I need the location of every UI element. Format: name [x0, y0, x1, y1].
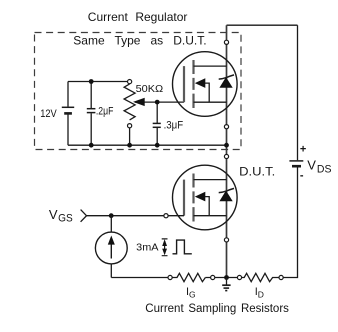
node Q2 gate terminal: [164, 214, 168, 218]
potentiometer wiper arrow: [133, 98, 145, 106]
wire inner bottom rail: [68, 144, 227, 146]
svg-text:Current Sampling Resistors: Current Sampling Resistors: [145, 303, 289, 315]
transistor Q1 diode cathode squiggle: [219, 75, 234, 79]
amplitude dimension arrow: [162, 239, 168, 256]
node junction C1 top rail: [89, 79, 94, 84]
svg-text:.3μF: .3μF: [164, 120, 184, 132]
wire wiper to gate: [135, 101, 184, 103]
wire main vertical drain/source line: [226, 25, 228, 277]
current source I1: [95, 232, 127, 264]
transistor Q1 body arrow: [195, 78, 206, 88]
svg-text:GS: GS: [58, 212, 73, 224]
wire right vertical to VDS battery: [283, 25, 297, 277]
current source leads: [110, 216, 112, 278]
node Q2 drain terminal: [224, 154, 228, 158]
node Q2 source terminal: [224, 238, 228, 242]
svg-text:-: -: [300, 169, 304, 181]
node pot top terminal: [128, 80, 132, 84]
current source I1 arrowhead: [108, 236, 115, 245]
resistor RG terminal right: [211, 275, 215, 279]
wire VGS to gate: [87, 215, 185, 217]
transistor Q1 drain lead: [194, 65, 227, 67]
transistor Q2 (D.U.T.) body connection: [205, 197, 209, 216]
resistor RD zigzag: [242, 273, 279, 281]
node junction wiper/C2: [155, 100, 160, 105]
transistor Q1 gate bar: [183, 66, 185, 102]
node junction rail/main: [224, 143, 229, 148]
node ground junction: [224, 275, 229, 280]
svg-text:50KΩ: 50KΩ: [136, 83, 164, 95]
capacitor C2 plates .3uF: [153, 123, 161, 127]
node junction C1 bottom rail: [89, 143, 94, 148]
resistor RG terminal left: [168, 275, 172, 279]
input chevron VGS: [81, 210, 87, 222]
svg-text:Current Regulator: Current Regulator: [88, 10, 188, 24]
resistor RD terminal left: [237, 275, 241, 279]
svg-text:12V: 12V: [40, 108, 57, 120]
capacitor C1 plates .2uF: [87, 109, 96, 113]
transistor Q2 (D.U.T.) channel segments: [192, 174, 194, 222]
svg-text:D.U.T.: D.U.T.: [239, 164, 275, 178]
node junction pot bottom rail: [127, 143, 132, 148]
battery 12V leads: [67, 82, 69, 146]
resistor RG zigzag: [172, 273, 205, 281]
amplitude arrow head up: [162, 239, 167, 246]
wire inner top rail: [68, 81, 128, 83]
node pot bottom terminal: [128, 124, 132, 128]
potentiometer R1 zigzag: [124, 84, 135, 120]
transistor Q2 (D.U.T.) drain lead: [194, 179, 227, 181]
transistor Q1 body circle: [173, 52, 238, 117]
wire bottom rail left: [111, 277, 168, 279]
svg-text:Same Type as D.U.T.: Same Type as D.U.T.: [73, 34, 206, 48]
svg-text:V: V: [307, 157, 316, 172]
transistor Q2 (D.U.T.) source lead: [194, 215, 227, 217]
transistor Q2 D.U.T.: [173, 165, 238, 230]
transistor Q2 (D.U.T.) body circle: [173, 165, 238, 230]
transistor Q1 channel segments: [192, 60, 194, 108]
transistor Q1 body connection: [205, 83, 209, 102]
transistor Q1 body diode: [220, 78, 232, 87]
svg-text:DS: DS: [317, 164, 332, 176]
capacitor C1 leads: [90, 82, 92, 146]
svg-text:D: D: [258, 289, 264, 299]
amplitude arrow head down: [162, 249, 167, 256]
battery VDS plates: [289, 161, 303, 166]
transistor Q1 source lead: [194, 101, 227, 103]
ground: [222, 278, 230, 291]
svg-text:G: G: [189, 289, 196, 299]
battery 12V plates: [62, 107, 74, 113]
current source I1 arrow: [110, 242, 112, 259]
resistor RD terminal right: [279, 275, 283, 279]
dashed enclosure box: [35, 33, 242, 150]
node Q1 drain terminal: [224, 40, 228, 44]
svg-text:3mA: 3mA: [136, 241, 158, 253]
node junction C2 bottom rail: [155, 143, 160, 148]
pulse waveform symbol: [173, 240, 192, 254]
wire top rail: [227, 24, 298, 26]
transistor Q2 (D.U.T.) body arrow: [195, 192, 206, 202]
transistor Q2 (D.U.T.) gate bar: [183, 180, 185, 216]
wire RG to ground junction to RD: [205, 277, 237, 279]
node junction VGS / current source: [109, 213, 114, 218]
transistor Q2 (D.U.T.) body diode: [220, 192, 232, 201]
potentiometer body leads: [129, 126, 131, 145]
svg-text:V: V: [49, 207, 58, 222]
node Q1 source terminal: [224, 125, 228, 129]
svg-text:+: +: [300, 144, 306, 156]
transistor Q1 current regulator MOSFET: [173, 52, 238, 117]
transistor Q2 (D.U.T.) diode cathode squiggle: [219, 188, 234, 192]
svg-text:.2μF: .2μF: [96, 105, 114, 117]
capacitor C2 leads: [156, 102, 158, 145]
